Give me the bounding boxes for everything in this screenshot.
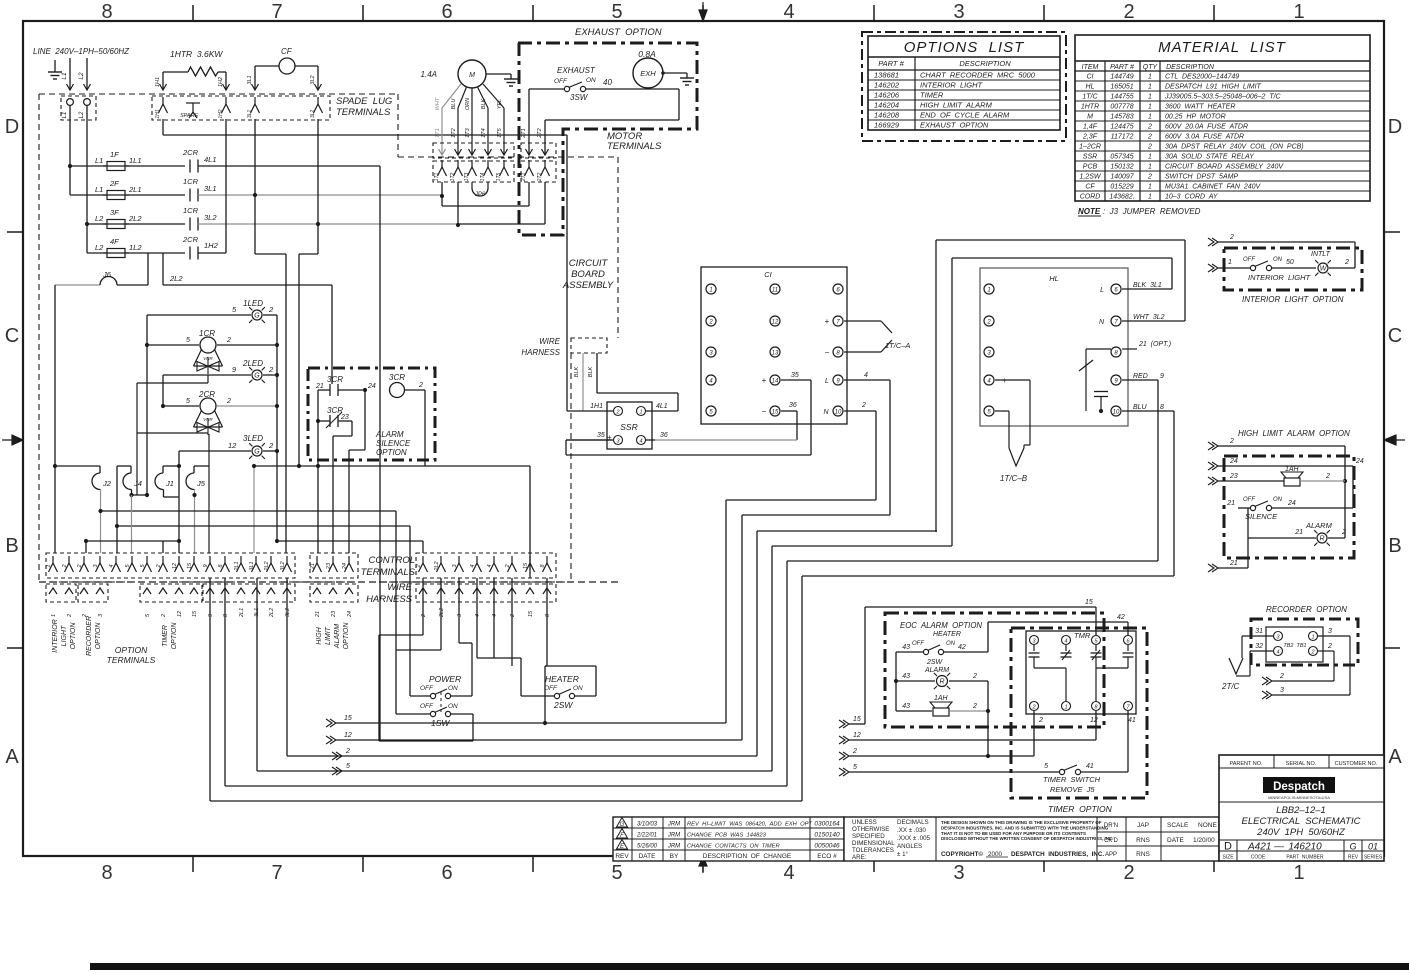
svg-text:1T3: 1T3 [464, 172, 470, 181]
svg-text:41: 41 [1086, 763, 1094, 770]
svg-text:12: 12 [228, 441, 237, 450]
1SW pole wires [379, 511, 473, 741]
svg-text:3L2: 3L2 [204, 213, 217, 222]
svg-text:G: G [254, 373, 260, 380]
svg-text:INTLT: INTLT [1311, 251, 1331, 258]
svg-text:2: 2 [510, 614, 516, 618]
svg-text:2L1: 2L1 [239, 608, 245, 618]
label TIMER OPTION (rotated) [162, 622, 178, 650]
spade lug terminal strip (dashed) [152, 96, 330, 120]
Despatch logo [1263, 777, 1335, 800]
svg-text:1T/C: 1T/C [1082, 94, 1098, 101]
svg-text:1: 1 [1148, 194, 1152, 201]
label WIRE HARNESS (left) [366, 582, 413, 605]
svg-text:2L2: 2L2 [128, 214, 142, 223]
svg-text:TOLERANCES: TOLERANCES [852, 847, 894, 854]
svg-text:4: 4 [639, 439, 642, 445]
wire terminal 1 riser [54, 285, 56, 553]
HL pins column 1 [984, 284, 1007, 416]
svg-text:HARNESS: HARNESS [366, 594, 413, 605]
cabinet fan CF [247, 47, 322, 90]
svg-text:L2: L2 [79, 111, 85, 118]
wire L1 incoming arrow [61, 58, 74, 90]
svg-text:CHART RECORDER MRC 5000: CHART RECORDER MRC 5000 [920, 71, 1036, 80]
svg-text:ON: ON [573, 685, 583, 692]
svg-text:RNS: RNS [1136, 851, 1150, 858]
recorder option box (thick dash-dot) [1251, 619, 1358, 665]
svg-text:23: 23 [331, 610, 337, 618]
timer TMR box [1026, 631, 1136, 714]
fuse 4F row (L2 4F 1L2 / 2CR 1H2) [87, 235, 226, 260]
timer switch [1043, 711, 1128, 794]
svg-text:G: G [254, 449, 260, 456]
HL pin6 wire to top run [1122, 288, 1172, 290]
svg-text:42: 42 [1117, 614, 1125, 621]
svg-text:2T1: 2T1 [521, 172, 527, 182]
wire 2T1 lower to HL feed (y240 horizontal) [936, 240, 1185, 532]
wire 2T2 to exhaust fan [537, 89, 679, 155]
svg-text:007778: 007778 [1110, 104, 1133, 111]
svg-text:SERIES: SERIES [1364, 855, 1383, 861]
svg-text:15: 15 [772, 410, 779, 416]
svg-text:14: 14 [772, 379, 779, 385]
svg-text:2T/C: 2T/C [1221, 682, 1240, 691]
svg-text:11: 11 [772, 288, 778, 294]
svg-text:1: 1 [1148, 154, 1152, 161]
svg-text:G: G [620, 822, 625, 828]
svg-text:2SW: 2SW [553, 700, 573, 710]
svg-text:DESCRIPTION OF CHANGE: DESCRIPTION OF CHANGE [703, 853, 792, 860]
svg-text:L1: L1 [61, 72, 68, 80]
svg-text:600V 20.0A FUSE ATDR: 600V 20.0A FUSE ATDR [1165, 124, 1248, 131]
timer option box (thick dash-dot) [1011, 628, 1147, 798]
solid state relay SSR [607, 402, 652, 449]
svg-text:J2: J2 [102, 479, 112, 488]
svg-text:6: 6 [441, 1, 452, 23]
svg-text:3: 3 [953, 862, 964, 884]
svg-text:36: 36 [789, 402, 797, 409]
svg-text:5: 5 [853, 764, 857, 771]
svg-text:A: A [5, 746, 19, 768]
svg-text:PCB: PCB [1083, 164, 1098, 171]
thermocouple 2T/C [1221, 628, 1273, 691]
svg-text:9: 9 [1160, 373, 1164, 380]
svg-text:43: 43 [902, 673, 910, 680]
svg-text:2: 2 [416, 564, 422, 568]
label OPTION TERMINALS [107, 645, 156, 665]
wire spade 1H1 to SSR (via 567) [163, 119, 567, 411]
2SW wires [477, 578, 596, 725]
svg-text:240V 1PH 50/60HZ: 240V 1PH 50/60HZ [1256, 827, 1346, 838]
jumper J5 [186, 466, 206, 553]
svg-text:5: 5 [186, 337, 190, 344]
svg-text:1: 1 [1148, 114, 1152, 121]
svg-text:2: 2 [972, 703, 977, 710]
svg-text:CHANGE PCB WAS 144823: CHANGE PCB WAS 144823 [687, 833, 767, 839]
svg-text:CODE: CODE [1251, 855, 1266, 861]
svg-text:MINNEAPOLIS•MINNESOTA•USA: MINNEAPOLIS•MINNESOTA•USA [1268, 795, 1330, 800]
svg-text:8: 8 [101, 1, 112, 23]
svg-text:015229: 015229 [1110, 184, 1133, 191]
svg-text:10–3 CORD AY: 10–3 CORD AY [1165, 194, 1219, 201]
svg-text:DATE: DATE [1167, 837, 1185, 844]
svg-text:TMR: TMR [1074, 631, 1091, 640]
svg-text:2: 2 [852, 748, 857, 755]
svg-text:1: 1 [639, 410, 642, 416]
wire 3L2 jog down to y466 bus [299, 224, 318, 466]
svg-text:1/20/00: 1/20/00 [1193, 837, 1215, 844]
label RECORDER OPTION (rotated) [86, 616, 102, 656]
svg-text:1: 1 [1064, 705, 1067, 711]
svg-text:Despatch: Despatch [1273, 781, 1325, 793]
svg-text:4: 4 [487, 564, 493, 567]
svg-text:B: B [1388, 535, 1401, 557]
svg-text:43: 43 [902, 644, 910, 651]
svg-text:4: 4 [1064, 639, 1067, 645]
high limit alarm option box (thick dash-dot) [1224, 456, 1354, 558]
options list table [868, 36, 1060, 130]
svg-text:2: 2 [1229, 234, 1234, 241]
svg-text:146206: 146206 [874, 91, 900, 100]
svg-text:TB2 TB1: TB2 TB1 [1283, 643, 1306, 649]
wire 2 to TMR pin2 [839, 711, 1034, 760]
label INTERIOR LIGHT OPTION (rotated) [52, 619, 77, 652]
svg-text:2: 2 [418, 382, 423, 389]
svg-text:END OF CYCLE ALARM: END OF CYCLE ALARM [920, 111, 1010, 120]
svg-text:3CR: 3CR [389, 373, 405, 382]
svg-text:SERIAL NO.: SERIAL NO. [1286, 761, 1317, 767]
svg-text:M: M [1087, 114, 1093, 121]
wire spade 3L1 down to 1CR row [254, 119, 256, 195]
svg-text:PARENT NO.: PARENT NO. [1229, 761, 1263, 767]
svg-text:2: 2 [77, 564, 83, 568]
wire 35 from CI pin 14 [566, 372, 811, 455]
svg-text:4: 4 [475, 614, 481, 617]
svg-text:DIMENSIONAL: DIMENSIONAL [852, 840, 895, 847]
svg-text:2L2: 2L2 [169, 274, 183, 283]
wire 5 bus left of 1LED [147, 315, 151, 345]
svg-text:ALARM: ALARM [924, 667, 949, 674]
control terminals strip 2 21-23-24 [310, 553, 358, 578]
svg-text:HL: HL [1086, 84, 1095, 91]
svg-text:MU3A1 CABINET FAN 240V: MU3A1 CABINET FAN 240V [1165, 184, 1262, 191]
svg-text:OPTION: OPTION [343, 622, 350, 650]
svg-text:ORN: ORN [465, 98, 471, 110]
svg-text:21: 21 [1226, 500, 1235, 507]
svg-text:D: D [1224, 841, 1232, 853]
svg-text:30A SOLID STATE RELAY: 30A SOLID STATE RELAY [1165, 154, 1255, 161]
bottom black bar [90, 963, 1409, 970]
wire 21 below alarm silence box [316, 421, 320, 553]
jumper J2 [92, 466, 112, 553]
svg-text:+: + [825, 317, 830, 326]
svg-text:1: 1 [1293, 862, 1304, 884]
silence switch [1226, 497, 1353, 521]
svg-text:7: 7 [271, 1, 282, 23]
svg-text:3: 3 [953, 1, 964, 23]
note J3 jumper removed [1078, 207, 1201, 216]
svg-text:12: 12 [772, 320, 779, 326]
wire bus2 to right control terminal [277, 541, 423, 553]
svg-text:R: R [1319, 536, 1324, 543]
svg-text:L2: L2 [95, 243, 104, 252]
svg-text:1T1: 1T1 [434, 172, 440, 181]
svg-text:TIMER SWITCH: TIMER SWITCH [1043, 775, 1101, 784]
svg-text:OPTION: OPTION [376, 448, 407, 457]
svg-text:3L1: 3L1 [204, 184, 217, 193]
svg-text:1: 1 [1148, 104, 1152, 111]
svg-text:2LED: 2LED [242, 359, 263, 368]
svg-text:15: 15 [344, 715, 352, 722]
svg-text:.XX ± .030: .XX ± .030 [897, 827, 926, 834]
svg-text:12: 12 [177, 611, 183, 617]
svg-text:CORD: CORD [1080, 194, 1101, 201]
svg-text:4: 4 [470, 564, 476, 567]
controller CI box [701, 267, 847, 424]
wire harness connector boxes row [46, 584, 556, 602]
svg-text:LINE 240V–1PH–50/60HZ: LINE 240V–1PH–50/60HZ [33, 47, 130, 56]
svg-text:8: 8 [1160, 404, 1164, 411]
svg-text:INTERIOR LIGHT: INTERIOR LIGHT [1248, 273, 1312, 282]
svg-text:QTY: QTY [1143, 64, 1159, 71]
svg-text:COPYRIGHT©: COPYRIGHT© [941, 850, 983, 858]
svg-text:1.4A: 1.4A [421, 70, 437, 79]
svg-text:NOTE: NOTE [1078, 207, 1101, 216]
svg-text:−: − [762, 407, 767, 416]
svg-text:SIZE: SIZE [1222, 855, 1234, 861]
svg-text:OPTION: OPTION [115, 645, 148, 655]
svg-text:8: 8 [101, 862, 112, 884]
wire from L2 terminal down to fuse rows [85, 105, 89, 253]
wire 2CR coil return to terminal 9 [208, 434, 210, 553]
svg-text:1: 1 [1293, 1, 1304, 23]
svg-text:24: 24 [347, 611, 353, 618]
svg-text:TIMER: TIMER [162, 625, 169, 647]
svg-text:146210: 146210 [1288, 842, 1322, 853]
high limit HL box [980, 268, 1128, 426]
svg-text:ELECTRICAL SCHEMATIC: ELECTRICAL SCHEMATIC [1242, 816, 1361, 827]
svg-text:15: 15 [853, 716, 861, 723]
svg-text:4: 4 [783, 1, 794, 23]
svg-text:7: 7 [271, 862, 282, 884]
svg-text:2: 2 [1147, 144, 1152, 151]
alarm lamp hl [1248, 508, 1346, 568]
svg-text:1L1: 1L1 [129, 156, 142, 165]
svg-text:5: 5 [1044, 763, 1048, 770]
svg-text:ON: ON [448, 685, 458, 692]
svg-text:SSR: SSR [1083, 154, 1097, 161]
svg-text:CK'D: CK'D [1104, 838, 1118, 844]
svg-text:L: L [1100, 287, 1104, 294]
svg-text:2L2: 2L2 [439, 608, 445, 618]
wire J2 to power switch (y511) [101, 510, 397, 512]
svg-text:3600 WATT HEATER: 3600 WATT HEATER [1165, 104, 1235, 111]
wire from L1 terminal down to fuse rows [68, 105, 72, 195]
svg-text:ASSEMBLY: ASSEMBLY [562, 280, 614, 291]
svg-text:117172: 117172 [1111, 134, 1134, 141]
svg-text:15: 15 [187, 562, 193, 569]
relay coil 2CR [161, 390, 279, 435]
wire 3L1 nest (terminal to top run) [257, 546, 952, 775]
interior light switch and lamp [1208, 251, 1355, 282]
svg-text:12: 12 [1090, 717, 1098, 724]
svg-text:C: C [1388, 325, 1402, 347]
label HIGH LIMIT ALARM OPTION (rotated) [316, 622, 350, 650]
wire 23 to terminal [332, 436, 334, 553]
svg-text:2: 2 [1229, 438, 1234, 445]
svg-text:01: 01 [1368, 842, 1378, 852]
svg-text:2: 2 [1123, 1, 1134, 23]
ground symbol at service entrance [48, 60, 62, 79]
svg-text:1: 1 [51, 614, 57, 617]
svg-text:50: 50 [1286, 259, 1294, 266]
exhaust ground [661, 71, 694, 85]
svg-text:2: 2 [1147, 134, 1152, 141]
svg-text:OFF: OFF [420, 685, 434, 692]
svg-text:5/26/00: 5/26/00 [637, 844, 658, 850]
svg-text:WIRE: WIRE [387, 582, 412, 593]
svg-text:165051: 165051 [1110, 84, 1133, 91]
svg-text:2SW: 2SW [926, 659, 944, 666]
svg-text:CHANGE CONTACTS ON TIMER: CHANGE CONTACTS ON TIMER [687, 844, 780, 850]
svg-text:1: 1 [1311, 635, 1314, 641]
svg-text:3L2: 3L2 [310, 75, 316, 84]
relay coil 1CR [145, 329, 279, 374]
wire 4 from CI pin 9 [844, 372, 890, 515]
circuit board assembly dashed outline [39, 94, 618, 582]
svg-text:2: 2 [226, 398, 231, 405]
svg-text:ALARM: ALARM [334, 624, 341, 649]
svg-text:L1: L1 [95, 156, 103, 165]
svg-text:SSR: SSR [620, 422, 637, 432]
svg-text:REV HI–LIMIT WAS 086420, A: REV HI–LIMIT WAS 086420, ADD EXH OPT [687, 822, 812, 828]
svg-text:B: B [5, 535, 18, 557]
svg-text:CONTROL: CONTROL [369, 555, 415, 566]
harness wire number labels [51, 608, 551, 618]
svg-text:2T2: 2T2 [537, 128, 543, 138]
svg-text:BLK: BLK [481, 98, 487, 109]
svg-text:INTERIOR LIGHT: INTERIOR LIGHT [920, 81, 984, 90]
label CIRCUIT BOARD ASSEMBLY [562, 258, 614, 291]
svg-text:TERMINALS: TERMINALS [361, 567, 416, 578]
svg-text:JRM: JRM [667, 822, 680, 828]
svg-text:2: 2 [161, 614, 167, 618]
wire 36 from CI pin 15 [655, 402, 797, 440]
wire harness box (dashed) above SSR [521, 337, 607, 357]
svg-text:1: 1 [1148, 84, 1152, 91]
svg-text:NONE: NONE [1198, 822, 1217, 829]
svg-text:2: 2 [268, 305, 274, 314]
svg-text:2: 2 [986, 320, 991, 326]
svg-text:J5: J5 [196, 479, 206, 488]
svg-text:24: 24 [1229, 458, 1238, 465]
jumper J4 [123, 466, 142, 495]
wire bus 2 vertical [275, 315, 279, 543]
svg-text:4F: 4F [110, 237, 119, 246]
svg-text:SILENCE: SILENCE [1245, 512, 1278, 521]
svg-text:21 (OPT.): 21 (OPT.) [1138, 341, 1171, 348]
contact 3CR NC [316, 390, 352, 436]
svg-text:HIGH: HIGH [316, 626, 323, 644]
svg-text:OFF: OFF [420, 703, 434, 710]
svg-text:35: 35 [597, 432, 605, 439]
svg-text:BOARD: BOARD [571, 269, 605, 280]
svg-text:6: 6 [441, 862, 452, 884]
svg-text:JRM: JRM [667, 844, 680, 850]
wire 1T1 to 2T1 [442, 182, 529, 206]
wire spade 1H2 down to 2CR row [225, 119, 227, 253]
svg-text:1AH: 1AH [934, 695, 949, 702]
svg-text:2: 2 [972, 673, 977, 680]
label ALARM SILENCE OPTION [375, 430, 411, 457]
wire 1CR coil return [137, 375, 208, 383]
svg-text:1CR: 1CR [183, 177, 199, 186]
contact 3CR NO with coil 3CR [315, 373, 425, 398]
svg-text:1: 1 [1228, 259, 1232, 266]
svg-text:146202: 146202 [874, 81, 900, 90]
HL pin9 wire RED to nest [1122, 380, 1158, 561]
wire 8 terminal riser [545, 578, 547, 666]
svg-text:JJ39005.5–303.5–25048–006–2 T: JJ39005.5–303.5–25048–006–2 T/C [1164, 94, 1282, 101]
svg-text:24: 24 [342, 563, 348, 570]
svg-text:DECIMALS: DECIMALS [897, 819, 929, 826]
svg-text:OTHERWISE: OTHERWISE [852, 826, 889, 833]
svg-text:5: 5 [186, 398, 190, 405]
svg-text:CF: CF [281, 47, 293, 56]
svg-text:3L2: 3L2 [280, 561, 286, 570]
svg-text:12: 12 [344, 732, 352, 739]
svg-text:ON: ON [1273, 497, 1283, 503]
wire 3L1 jog down to terminal 3L2 [255, 195, 286, 553]
svg-text:UNLESS: UNLESS [852, 819, 877, 826]
svg-text:4: 4 [492, 614, 498, 617]
svg-text:R: R [939, 679, 944, 686]
svg-text:HIGH LIMIT ALARM OPTION: HIGH LIMIT ALARM OPTION [1238, 429, 1350, 438]
svg-text:2,3F: 2,3F [1082, 134, 1098, 141]
svg-text:TERMINALS: TERMINALS [107, 655, 156, 665]
svg-text:143682.: 143682. [1109, 194, 1134, 201]
svg-text:2CR: 2CR [182, 235, 199, 244]
svg-text:DISCLOSED WITHOUT THE WRITTEN: DISCLOSED WITHOUT THE WRITTEN CONSENT OF… [941, 836, 1113, 841]
svg-text:2CR: 2CR [182, 148, 199, 157]
svg-text:2: 2 [505, 564, 511, 568]
wire J4 branch (y526) [117, 525, 410, 527]
svg-text:3L1: 3L1 [247, 110, 253, 119]
svg-text:3L2: 3L2 [310, 110, 316, 119]
wire spade 3L2 down to 1CR 3L2 row [317, 119, 319, 224]
svg-text:G: G [254, 313, 260, 320]
svg-text:2: 2 [1344, 259, 1349, 266]
thermocouple 1T/C-A connection [844, 321, 910, 352]
terminal block L1 L2 (dashed) [61, 96, 96, 120]
HL pin 8 wire 21 OPT [1122, 341, 1171, 349]
svg-text:± 1°: ± 1° [897, 851, 909, 858]
svg-text:9: 9 [208, 614, 214, 617]
svg-text:1H1: 1H1 [590, 403, 603, 410]
HL internal contact and capacitor [1079, 349, 1111, 413]
svg-text:L: L [825, 378, 829, 385]
title block [1219, 755, 1384, 861]
wire 2T2 lower to HL feed (y258 horizontal) [952, 258, 1172, 546]
svg-text:DESPATCH INDUSTRIES, INC.: DESPATCH INDUSTRIES, INC. [1011, 851, 1104, 858]
switch 3SW exhaust [529, 66, 679, 102]
wire BLK 1 from harness [574, 353, 583, 411]
wire terminal 4 riser [115, 466, 119, 553]
svg-text:2: 2 [268, 441, 274, 450]
wire 15 nest from chevron [326, 500, 876, 727]
svg-text:2L1: 2L1 [234, 561, 240, 571]
motor terminals dashed boxes upper [433, 143, 556, 158]
